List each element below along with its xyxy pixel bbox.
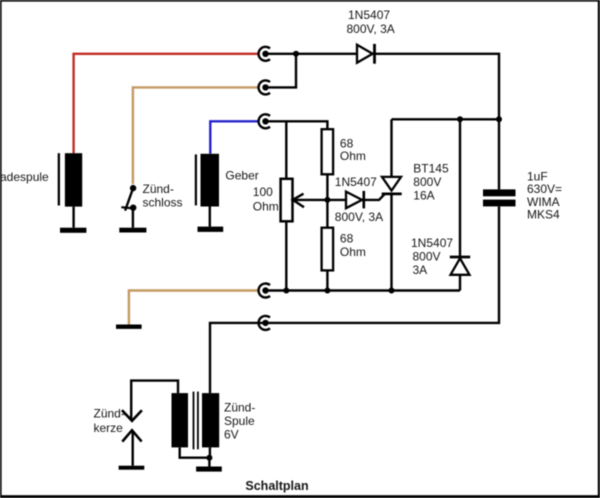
ground Zuendspule [196,467,222,472]
wire Ladespule stem [72,207,74,228]
connector 3 [259,114,270,128]
potentiometer R3 100 Ohm [281,179,293,222]
wire freewheel diode top lead [459,119,461,257]
svg-text:1N5407: 1N5407 [335,175,377,189]
node junction bottom resistor [324,288,330,294]
ground Zuendkerze [119,466,145,470]
svg-text:1N5407: 1N5407 [411,236,453,250]
svg-text:6V: 6V [224,428,239,442]
ground Geber [198,227,224,232]
potentiometer wiper arrow [293,194,304,208]
wire coil ground stem [208,458,210,467]
svg-text:800V: 800V [413,250,441,264]
svg-text:MKS4: MKS4 [527,208,560,222]
svg-text:Spule: Spule [224,414,255,428]
wire between 68 Ohm resistors [326,174,328,228]
svg-text:68: 68 [340,232,354,246]
wire bottom bus [266,289,461,291]
node junction bottom thyristor [389,288,395,294]
svg-text:Ohm: Ohm [253,200,279,214]
ground tan wire [116,325,142,329]
wire capacitor top lead [498,119,500,189]
connector 1 [259,47,270,61]
svg-text:800V: 800V [413,175,441,189]
resistor R2 68 Ohm bottom [322,228,334,271]
node junction bus left [457,116,463,122]
connector 4 [259,284,270,298]
wire branch down to potentiometer [285,121,287,179]
svg-text:Ohm: Ohm [340,245,366,259]
wire wiper to gate diode to thyristor gate [294,194,385,200]
svg-text:Ohm: Ohm [340,149,366,163]
node junction top [293,51,299,57]
ground Ladespule [60,228,86,233]
svg-text:Geber: Geber [225,169,258,183]
spark gap Zuendkerze [122,410,142,441]
capacitor C1 1uF WIMA MKS4 [483,189,516,206]
diode D1 1N5407 top [357,45,373,63]
wire connector 1 to top diode [266,53,358,55]
wire below bottom 68 Ohm [326,270,328,290]
wire connector 2 up to junction [266,54,297,87]
switch Zuendschloss [130,185,136,211]
wire top diode to top-right corner down to bus [376,54,500,120]
svg-text:Zünd-: Zünd- [143,182,174,196]
diode D2 1N5407 gate [346,192,362,209]
wire top bus [392,118,500,120]
svg-text:100: 100 [253,185,273,199]
wire blue Geber to connector 3 [210,121,259,154]
svg-text:adespule: adespule [0,170,49,184]
svg-text:BT145: BT145 [413,162,449,176]
svg-text:1N5407: 1N5407 [348,8,390,22]
wire thyristor cathode column [390,194,392,291]
node junction bus right [496,116,502,122]
coil Ladespule [58,153,82,206]
wire tan connector 4 to ground [129,291,259,325]
wire capacitor bottom lead to connector 5 [266,207,500,323]
wire spark plug top electrode and link to coil [131,381,178,420]
wire coil primary bottom [180,447,210,457]
svg-text:16A: 16A [413,188,434,202]
wire tan connector 2 to Zuendschloss [133,87,259,184]
wire freewheel diode bottom lead [459,275,461,291]
transformer Zuendspule [172,392,220,450]
resistor R1 68 Ohm top [322,129,334,174]
svg-text:kerze: kerze [94,421,124,435]
wire Geber stem [209,207,211,227]
wire below potentiometer [285,221,287,290]
wire connector 5 to ignition coil [210,323,266,393]
wire spark plug bottom electrode [131,431,133,466]
svg-text:schloss: schloss [143,195,183,209]
wire thyristor anode column [390,119,392,177]
coil Geber [195,154,219,207]
svg-text:800V, 3A: 800V, 3A [347,22,395,36]
connector 2 [259,80,270,94]
diode D3 1N5407 freewheel [450,256,470,259]
svg-text:3A: 3A [413,263,428,277]
wire Zuendschloss stem [132,208,134,228]
svg-text:Schaltplan: Schaltplan [245,479,308,493]
wire red Ladespule to connector 1 [74,54,259,153]
ground Zuendschloss [119,228,146,233]
thyristor BT145 [382,177,401,191]
node junction coil ground [206,455,212,461]
node junction wiper [324,197,330,203]
connector 5 [259,316,270,330]
svg-text:800V, 3A: 800V, 3A [335,210,383,224]
wire connector 3 to resistor column [266,121,328,129]
node junction bottom pot [283,288,289,294]
svg-text:Zünd-: Zünd- [224,401,255,415]
svg-text:Zünd-: Zünd- [94,407,125,421]
